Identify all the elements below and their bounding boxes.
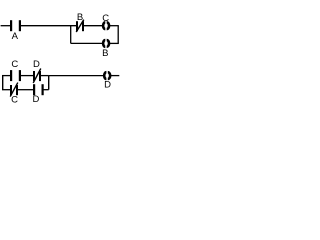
coil C <box>103 22 109 29</box>
wire rung1 to branch <box>21 25 76 27</box>
wire rung2 bottom right <box>44 89 49 91</box>
contact B (NC) <box>76 20 84 32</box>
wire rung2 bottom left <box>2 89 10 91</box>
coil B <box>103 40 109 47</box>
svg-text:B: B <box>102 48 108 59</box>
svg-text:C: C <box>11 59 18 70</box>
contact C (rung2 top) <box>10 70 21 81</box>
wire rung2 to coil D <box>49 75 103 77</box>
wire rung2 top mid <box>21 75 33 77</box>
svg-text:D: D <box>32 94 39 105</box>
contact A <box>10 20 21 31</box>
wire B to coil C <box>84 25 102 27</box>
wire coil D to right edge <box>111 75 119 77</box>
svg-text:C: C <box>102 13 109 24</box>
wire rung2 bottom mid <box>18 89 33 91</box>
right vertical rung1 <box>117 26 119 44</box>
wire rung1 left <box>1 25 11 27</box>
svg-text:D: D <box>104 79 111 90</box>
wire coil B to right vertical <box>110 42 119 44</box>
svg-text:B: B <box>77 12 83 23</box>
branch vertical left (rung1) <box>70 26 72 44</box>
svg-text:D: D <box>33 59 40 70</box>
coil D <box>104 72 110 79</box>
contact D (NC, rung2 top) <box>33 69 41 83</box>
contact C (NC, rung2 bottom) <box>10 83 18 97</box>
svg-text:C: C <box>11 95 18 106</box>
wire rung2 top left <box>2 75 10 77</box>
svg-text:A: A <box>12 31 19 42</box>
contact D (rung2 bottom) <box>33 84 44 95</box>
wire coil C to right vertical <box>110 25 119 27</box>
left vertical rung2 <box>2 76 4 90</box>
right vertical rung2 block <box>48 76 50 90</box>
wire rung2 top right <box>41 75 49 77</box>
bottom branch wire rung1 <box>71 42 103 44</box>
